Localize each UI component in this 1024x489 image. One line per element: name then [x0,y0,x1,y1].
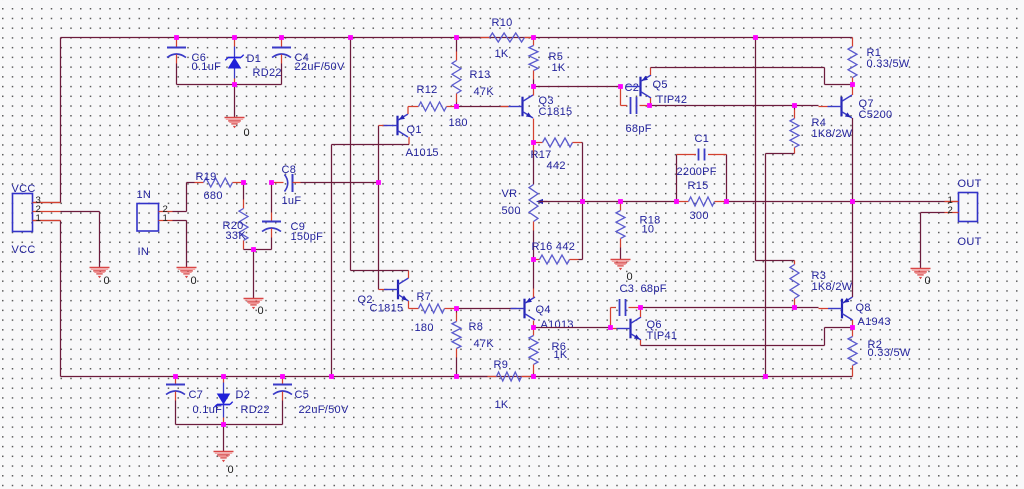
wire left VCC riser x=60 [33,38,61,203]
junction at 331,376 [329,374,334,379]
junction at 852,327 [850,325,855,330]
resistor R19 680 [187,171,244,202]
wire to input ground [253,250,255,299]
svg-text:1K8/2W: 1K8/2W [812,128,853,140]
svg-text:0: 0 [258,305,264,317]
transistor Q7 C5200 [819,85,893,202]
svg-text:VR: VR [502,188,518,200]
svg-text:300: 300 [690,210,709,222]
svg-text:VCC: VCC [12,244,36,256]
svg-text:1K: 1K [495,399,509,411]
svg-text:2200PF: 2200PF [677,166,717,178]
pin 1 of OUT [945,195,959,206]
pin 3 of VCC [33,195,61,206]
wire Q3 collector node to Q5 base [534,86,621,88]
svg-text:1K: 1K [554,349,568,361]
junction at 640,307 [638,305,643,310]
wire C8 to input node [301,182,379,184]
svg-text:442: 442 [547,160,566,172]
svg-text:VCC: VCC [12,183,36,195]
label OUT top [958,178,982,190]
junction at 533,86 [531,84,536,89]
svg-text:C7: C7 [189,389,204,401]
svg-text:22uF/50V: 22uF/50V [299,404,349,416]
svg-text:0.1uF: 0.1uF [192,61,222,73]
svg-text:1N: 1N [137,189,152,201]
wire R17 right leg down [582,143,584,202]
svg-text:OUT: OUT [958,178,982,190]
transistor Q5 TIP42 [627,68,688,106]
junction at 794,105 [792,103,797,108]
junction at 533,327 [531,325,536,330]
wire R20 C9 bottoms [244,249,272,251]
svg-text:1uF: 1uF [282,195,302,207]
capacitor C1 2200PF [677,133,727,202]
resistor R10 1K [457,17,534,60]
junction at 755,37 [753,35,758,40]
diode D2 RD22 zener [214,377,270,425]
junction at 620,201 [618,199,623,204]
wire Q2 collector riser x=350 [351,38,409,271]
wire VR wiper to feedback rail [539,201,959,203]
ground 0 below D1 [225,118,250,139]
resistor R18 10 [616,202,661,260]
pin 1 of VCC [33,213,61,224]
transistor Q8 A1943 [819,202,891,328]
svg-text:C5200: C5200 [859,109,893,121]
svg-text:1: 1 [163,213,169,224]
svg-text:C5: C5 [295,389,310,401]
svg-text:0: 0 [228,464,234,476]
svg-text:Q4: Q4 [536,304,551,316]
svg-text:680: 680 [204,190,223,202]
wire C7 D2 C5 bottoms tie [176,424,283,426]
junction at 378,182 [376,180,381,185]
svg-text:22uF/50V: 22uF/50V [295,61,345,73]
wire bottom rail [61,376,853,378]
wire R4 bottom to bottom rail [766,154,795,377]
junction at 223,424 [221,422,226,427]
svg-text:C1: C1 [695,133,710,145]
svg-text:1K: 1K [552,62,566,74]
pin 2 of IN [159,204,173,215]
svg-text:47K: 47K [474,86,495,98]
pin 2 of OUT [945,205,959,216]
junction at 243,182 [241,180,246,185]
svg-text:0: 0 [104,275,110,287]
junction at 223,376 [221,374,226,379]
svg-text:R9: R9 [494,359,509,371]
label IN bottom [138,246,150,258]
svg-text:180: 180 [415,322,434,334]
svg-text:C8: C8 [282,164,297,176]
resistor R7 180 [409,291,457,334]
junction at 271,182 [269,180,274,185]
svg-text:A1943: A1943 [858,316,891,328]
capacitor C8 1uF [272,164,302,207]
svg-text:33K: 33K [226,230,247,242]
svg-text:0: 0 [191,275,197,287]
svg-text:0.33/5W: 0.33/5W [868,347,911,359]
ground 0 input network [244,299,264,317]
svg-text:A1013: A1013 [541,319,574,331]
wire VCC pin2 to ground [61,212,100,268]
connector J2 IN [137,204,159,232]
junction at 175,376 [173,374,178,379]
connector J1 VCC [13,194,33,232]
junction at 794,307 [792,305,797,310]
junction at 282,376 [280,374,285,379]
transistor Q1 A1015 [379,107,439,159]
junction at 852,84 [850,82,855,87]
transistor Q3 C1815 [501,87,573,143]
svg-text:1K8/2W: 1K8/2W [812,281,853,293]
ground 0 below IN pin1 [177,268,197,287]
svg-text:R13: R13 [470,69,491,81]
wire V+ top rail [61,37,853,39]
svg-text:R19: R19 [196,171,217,183]
svg-text:R16 442: R16 442 [532,241,576,253]
transistor Q6 TIP41 [611,308,678,346]
junction at 176,37 [174,35,179,40]
resistor R5 1K [529,38,566,87]
junction at 533,142 [531,140,536,145]
wire R16 right leg up [582,202,584,260]
svg-text:0.33/5W: 0.33/5W [867,58,910,70]
svg-text:C2: C2 [625,82,640,94]
junction at 852,201 [850,199,855,204]
ground 0 below VCC pin2 [90,268,110,287]
junction at 620,86 [618,84,623,89]
svg-text:R15: R15 [688,180,709,192]
junction at 582,201 [580,199,585,204]
resistor R3 1K8/2W [790,261,853,308]
wire D2 to ground [223,425,225,452]
ground 0 below D2 [214,452,234,476]
resistor R9 1K [457,359,534,411]
junction at 533,37 [531,35,536,40]
svg-text:R7: R7 [417,291,432,303]
wire R7 node to Q4 base [457,308,511,310]
svg-text:IN: IN [138,246,150,258]
ground 0 below OUT [911,269,931,287]
svg-text:Q8: Q8 [856,302,871,314]
potentiometer VR 500 [502,143,548,260]
wire IN pin1 to ground [173,221,187,268]
svg-text:D2: D2 [236,389,251,401]
capacitor C3 68pF [611,283,667,328]
junction at 649,105 [647,103,652,108]
svg-text:A1015: A1015 [406,147,439,159]
svg-text:C1815: C1815 [539,106,573,118]
wire Q6 collector node to Q8 base [641,307,819,309]
resistor R6 1K [529,328,568,377]
resistor R12 180 [408,84,468,129]
resistor R13 47K [452,38,494,107]
junction at 234,84 [232,82,237,87]
wire top rail drop to R3 [756,38,795,261]
junction at 533,376 [531,374,536,379]
resistor R20 33K [223,183,249,250]
junction at 234,37 [232,35,237,40]
svg-text:RD22: RD22 [253,67,282,79]
wire input node vertical Q1/Q2 bases [378,126,380,290]
resistor R2 0.33/5W [848,328,911,377]
connector J3 OUT [959,193,978,222]
capacitor C2 68pF [621,82,652,135]
wire Q1 collector to lower rail branch [332,145,410,377]
svg-text:C3: C3 [620,283,635,295]
svg-text:Q5: Q5 [653,79,668,91]
junction at 765,376 [763,374,768,379]
wire Q5 emitter to R1 node [651,68,853,85]
wire IN pin2 up to R19 [173,183,187,212]
pin 2 of VCC [33,204,61,215]
wire OUT pin2 to ground [921,213,945,269]
svg-text:68pF: 68pF [641,283,667,295]
svg-text:0: 0 [627,271,633,283]
svg-text:TIP41: TIP41 [647,330,678,342]
svg-text:68pF: 68pF [626,123,652,135]
svg-text:Q1: Q1 [407,124,422,136]
svg-text:180: 180 [449,117,468,129]
junction at 456,106 [454,104,459,109]
wire R12 node to Q3 base [457,106,509,108]
label IN top [137,189,152,201]
svg-text:150pF: 150pF [291,231,324,243]
capacitor C7 [166,377,222,425]
resistor R4 1K8/2W [790,106,853,154]
junction at 726,201 [724,199,729,204]
junction at 456,37 [454,35,459,40]
svg-text:RD22: RD22 [241,404,270,416]
svg-text:500: 500 [502,205,521,217]
svg-text:1K: 1K [495,48,509,60]
wire Q4 collector node to Q6 base [534,327,611,329]
svg-text:OUT: OUT [958,236,982,248]
resistor R15 300 [677,180,727,222]
svg-text:R8: R8 [469,321,484,333]
capacitor C5 [273,377,349,425]
svg-text:10: 10 [642,223,655,235]
svg-text:0: 0 [925,275,931,287]
capacitor C4 [272,38,345,85]
svg-text:R12: R12 [417,84,438,96]
svg-text:1: 1 [36,213,42,224]
svg-text:TIP42: TIP42 [657,94,688,106]
pin 1 of IN [159,213,173,224]
wire C6 D1 C4 bottoms tie [177,84,282,86]
resistor R16 442 [532,241,583,264]
junction at 456,308 [454,306,459,311]
diode D1 RD22 zener [225,38,282,85]
svg-text:0.1uF: 0.1uF [193,404,223,416]
resistor R8 47K [452,309,494,377]
junction at 676,201 [674,199,679,204]
wire Q6 emitter to R2 node [641,328,853,346]
transistor Q4 A1013 [511,260,574,331]
svg-text:R10: R10 [492,17,513,29]
ground 0 below R18 [611,260,633,283]
junction at 533,259 [531,257,536,262]
resistor R17 442 [531,138,583,172]
resistor R1 0.33/5W [848,38,910,85]
svg-text:2: 2 [948,205,954,216]
junction at 610,327 [608,325,613,330]
junction at 281,37 [279,35,284,40]
svg-text:0: 0 [244,127,250,139]
capacitor C9 150pF [262,183,323,250]
label VCC top [12,183,36,195]
label OUT bottom [958,236,982,248]
wire left ground drop x=60 [33,221,61,377]
wire D1 to ground [234,85,236,118]
junction at 350,37 [348,35,353,40]
label VCC bottom [12,244,36,256]
svg-text:C1815: C1815 [370,302,404,314]
junction at 456,376 [454,374,459,379]
svg-text:D1: D1 [247,53,262,65]
transistor Q2 C1815 [358,271,409,315]
svg-text:47K: 47K [474,338,495,350]
capacitor C6 [167,38,221,85]
junction at 253,249 [251,247,256,252]
wire Q5 collector to Q7 base [651,105,819,107]
